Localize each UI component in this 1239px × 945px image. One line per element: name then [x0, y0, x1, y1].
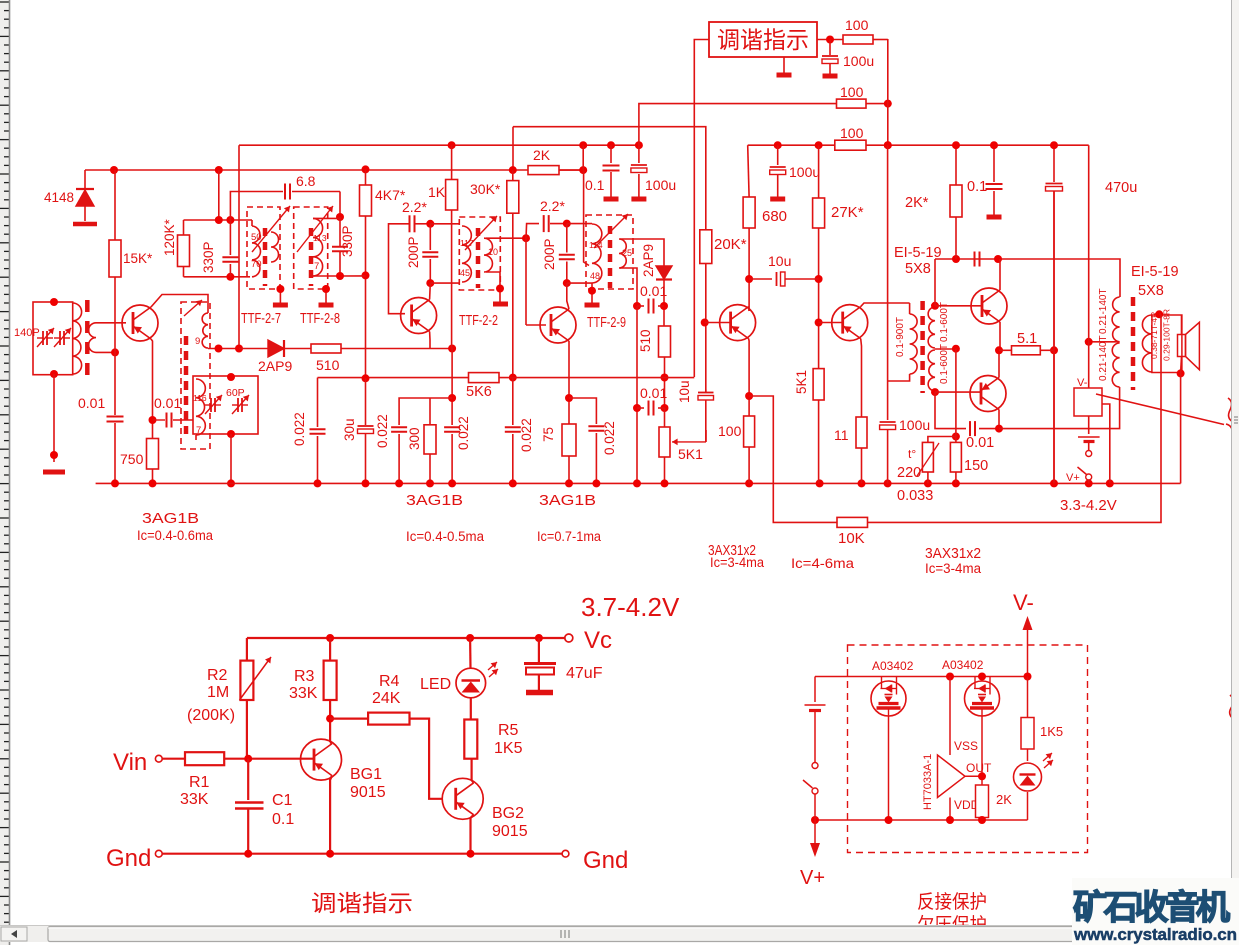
svg-text:2K: 2K — [996, 792, 1012, 807]
rail junction x664.5 — [661, 479, 669, 487]
TTF-2-9 core dashes — [608, 226, 613, 288]
node prot bottom x950 — [946, 816, 954, 824]
svg-text:t°: t° — [908, 447, 916, 461]
svg-text:100u: 100u — [843, 53, 874, 69]
resistor 5K6 — [469, 373, 500, 383]
MOSFET Q1 A03402 — [871, 681, 906, 716]
rail junction x861.5 — [858, 479, 866, 487]
node prot bottom x982 — [978, 816, 986, 824]
node y276 x230 — [226, 273, 234, 281]
TTF-2-8 trimmer arrow — [297, 206, 333, 252]
svg-text:5X8: 5X8 — [1138, 283, 1164, 299]
antenna coil primary L1 — [73, 303, 82, 374]
vertical scrollbar grip — [1234, 417, 1238, 423]
resistor 100 no1 — [843, 35, 873, 44]
wire audio1 collector — [748, 307, 751, 311]
node wire A 100u corner — [635, 141, 643, 149]
svg-text:33K: 33K — [289, 685, 318, 702]
vertical x887.8 — [887, 39, 889, 145]
capacitor 100u interstage — [887, 381, 889, 420]
Vc rail wire — [247, 637, 566, 639]
wire audio1 emitter — [748, 339, 751, 416]
diode 2AP9 detector — [656, 266, 672, 279]
wire BG1 base — [248, 758, 314, 760]
wire R5 to BG2 collector — [472, 759, 474, 783]
resistor 300 — [429, 398, 431, 425]
svg-text:R4: R4 — [379, 673, 400, 690]
node det out — [660, 302, 668, 310]
wire varcap box to rail — [230, 434, 232, 483]
diode 4148 — [76, 190, 94, 206]
wire y276 tank bottom — [184, 276, 251, 278]
svg-text:60P: 60P — [226, 387, 245, 399]
ground TTF-2-2 — [493, 302, 508, 307]
svg-text:15K*: 15K* — [123, 251, 153, 266]
svg-text:Vin: Vin — [113, 749, 147, 776]
node 0.01no2 left — [633, 404, 641, 412]
TTF-2-7 secondary coil — [271, 232, 279, 262]
rail junction x365.5 — [362, 479, 370, 487]
interstage secondary upper — [928, 307, 935, 348]
wire IF2 collector — [567, 283, 569, 309]
svg-text:9: 9 — [195, 336, 200, 347]
TTF-2-2 dashed box — [459, 217, 500, 290]
node emitter junction — [995, 346, 1003, 354]
resistor R2 variable — [246, 638, 248, 661]
wire x218 drop — [218, 170, 220, 220]
node output center tap — [1085, 338, 1093, 346]
ferrite core dashes — [85, 300, 90, 378]
node emitters 5.1 — [1050, 346, 1058, 354]
interstage primary coil — [909, 303, 911, 314]
wire 6.8 right drop — [339, 192, 341, 218]
svg-text:EI-5-19: EI-5-19 — [894, 245, 942, 261]
capacitor 0.01 base bypass — [114, 352, 116, 415]
svg-text:120K*: 120K* — [162, 218, 177, 256]
wire secondary bottom to node — [96, 351, 115, 353]
svg-text:10: 10 — [488, 247, 498, 257]
protection dashed box — [848, 645, 1088, 853]
node R3 top — [326, 634, 334, 642]
resistor 1K5 protection — [1027, 677, 1029, 718]
capacitor 200P no2 — [566, 224, 568, 253]
svg-text:0.022: 0.022 — [375, 414, 390, 448]
svg-text:BG1: BG1 — [350, 766, 382, 783]
svg-text:Vc: Vc — [584, 627, 612, 654]
svg-text:10u: 10u — [768, 253, 791, 269]
node C1 gnd — [244, 850, 252, 858]
node wire A 1K — [448, 141, 456, 149]
svg-text:EI-5-19: EI-5-19 — [1131, 264, 1179, 280]
svg-text:Ic=3-4ma: Ic=3-4ma — [925, 561, 981, 576]
svg-text:0.1: 0.1 — [272, 811, 294, 828]
svg-text:100u: 100u — [899, 417, 930, 433]
resistor 20K* — [705, 170, 707, 230]
wire thermistor branch — [928, 437, 956, 443]
wire 20K to base — [705, 264, 707, 393]
wire x1054 down — [1053, 191, 1055, 483]
svg-text:5K6: 5K6 — [466, 384, 492, 400]
resistor 30K* — [512, 170, 514, 181]
resistor R5 — [464, 720, 477, 759]
scrollbar grip — [561, 930, 569, 938]
capacitor 330P no2 — [332, 246, 348, 248]
svg-text:0.033: 0.033 — [897, 488, 933, 504]
osc core dashes — [184, 336, 189, 434]
capacitor 100u audio supply — [777, 145, 779, 165]
wire lower collector — [998, 410, 1000, 429]
svg-text:5X8: 5X8 — [905, 261, 931, 277]
node 2K* bottom — [952, 255, 960, 263]
rail junction x1109.8 — [1106, 479, 1114, 487]
wire detector diode down — [663, 280, 665, 327]
svg-text:2K*: 2K* — [905, 195, 929, 211]
node 27K top — [815, 141, 823, 149]
svg-text:0.01: 0.01 — [640, 283, 667, 299]
ground 100u wireA — [631, 197, 646, 202]
capacitor 30u electrolytic — [365, 378, 367, 425]
svg-text:0.1: 0.1 — [585, 177, 605, 193]
variable capacitor C-tune-b — [54, 337, 60, 339]
svg-text:100: 100 — [840, 125, 864, 141]
wire converter emitter down — [151, 339, 153, 483]
wire LED to bottom — [1027, 792, 1029, 820]
resistor 680 — [748, 145, 749, 197]
TTF-2-7 ground stub — [279, 285, 281, 303]
svg-text:9015: 9015 — [350, 784, 386, 801]
svg-text:反接保护: 反接保护 — [917, 891, 987, 913]
output transformer primary lower — [1112, 343, 1119, 387]
resistor 1K — [451, 145, 453, 179]
svg-text:VSS: VSS — [954, 739, 978, 753]
node osc out — [215, 345, 223, 353]
capacitor 0.01 no1 — [637, 305, 644, 307]
svg-text:C1: C1 — [272, 792, 293, 809]
svg-text:30K*: 30K* — [470, 181, 501, 197]
svg-text:680: 680 — [762, 208, 787, 225]
wire 680 to collector — [748, 228, 750, 311]
svg-text:140P: 140P — [14, 327, 40, 339]
svg-text:A03402: A03402 — [942, 658, 984, 672]
rail junction x1088.7 — [1085, 479, 1093, 487]
node 470u top — [1050, 141, 1058, 149]
variable capacitor C-tune-a 140P — [37, 337, 43, 339]
LED protection — [1014, 763, 1042, 791]
resistor 510 osc — [311, 344, 341, 353]
svg-text:3.3-4.2V: 3.3-4.2V — [1060, 497, 1117, 514]
node IF2 emitter y398 — [565, 394, 573, 402]
rail junction x152.5 — [149, 479, 157, 487]
svg-text:0.022: 0.022 — [292, 412, 307, 446]
resistor 4K7* — [365, 169, 367, 185]
svg-text:HT7033A-1: HT7033A-1 — [922, 754, 934, 810]
wire x637 down — [636, 306, 638, 483]
transistor driver 3AX31 — [832, 305, 868, 341]
svg-text:9015: 9015 — [492, 823, 528, 840]
osc feedback coil — [196, 379, 205, 435]
wire 1K to emitter node — [451, 210, 453, 349]
capacitor 0.022 no0 — [317, 378, 319, 427]
LED indicator — [456, 668, 486, 698]
tuning indicator callout box — [709, 22, 817, 57]
right edge strip — [1232, 0, 1239, 945]
node thermistor top — [952, 433, 960, 441]
svg-text:20K*: 20K* — [714, 236, 747, 253]
potentiometer 5K1 volume — [659, 427, 670, 457]
rail junction x637 — [633, 479, 641, 487]
wire sec top to upper base — [935, 305, 982, 307]
feedback wire to speaker top — [868, 315, 1162, 522]
svg-text:300: 300 — [407, 427, 422, 450]
wire OUT to node — [965, 775, 982, 777]
node 30u AGC — [362, 374, 370, 382]
wire C y=126.7 — [513, 127, 706, 170]
resistor 100 no2 — [837, 99, 867, 108]
svg-text:0.022: 0.022 — [456, 416, 471, 450]
node y220 x230 — [226, 216, 234, 224]
wire TTF29 sec bottom down — [620, 268, 637, 306]
svg-text:TTF-2-9: TTF-2-9 — [587, 315, 626, 331]
svg-text:330P: 330P — [201, 241, 216, 273]
scrollbar thumb — [48, 927, 1083, 942]
ground 0.1 output — [987, 215, 1002, 220]
transistor IF2 3AG1B — [540, 307, 576, 343]
wire B horizontal — [85, 169, 583, 171]
svg-text:V+: V+ — [1066, 472, 1080, 484]
node wire A 0.1cap — [607, 141, 615, 149]
resistor R4 — [330, 717, 368, 719]
wire upper emitter — [999, 322, 1001, 350]
resistor 5.1 — [999, 349, 1012, 351]
TTF-2-8 dashed box — [294, 207, 328, 289]
node prot top x950 — [946, 673, 954, 681]
rail junction x512.8 — [509, 479, 517, 487]
svg-text:330P: 330P — [340, 225, 355, 257]
svg-text:R2: R2 — [207, 667, 228, 684]
output transformer primary upper — [1112, 297, 1120, 342]
svg-text:Ic=3-4ma: Ic=3-4ma — [710, 555, 764, 570]
terminal Vin — [155, 755, 162, 762]
Gnd rail indicator — [162, 853, 562, 855]
node prot top x982 — [978, 673, 986, 681]
svg-text:LED: LED — [420, 676, 451, 693]
node y398 x452 — [448, 394, 456, 402]
wire converter collector to osc coil — [151, 295, 208, 314]
svg-text:47uF: 47uF — [566, 665, 603, 682]
node TTF-2-8 gnd — [322, 285, 330, 293]
svg-text:Gnd: Gnd — [106, 845, 151, 872]
diode 2AP9 osc — [268, 340, 284, 357]
capacitor 200P no1 — [429, 224, 431, 250]
feedback wire from audio1 emitter — [749, 396, 837, 522]
capacitor 0.1 wireA — [610, 145, 612, 163]
battery output — [1078, 436, 1100, 438]
AGC wire — [318, 377, 695, 379]
svg-text:R3: R3 — [294, 668, 315, 685]
node 200Pno2 bottom — [563, 279, 571, 287]
svg-text:150: 150 — [964, 458, 988, 474]
output secondary coil — [1142, 315, 1152, 372]
capacitor 10u to pot — [705, 390, 707, 393]
TTF-2-9 trimmer arrow — [594, 214, 628, 248]
thermistor 220 t — [922, 442, 933, 472]
rail junction x927.9 — [924, 479, 932, 487]
resistor 100 no3 — [835, 140, 866, 150]
node emitter-0.01 junction — [149, 416, 157, 424]
wire driver emitter to 11 — [860, 339, 863, 417]
TTF-2-8 core dashes — [309, 228, 314, 286]
MOSFET Q2 A03402 — [965, 681, 1000, 716]
capacitor 330P no1 — [229, 220, 231, 255]
battery protection — [814, 677, 816, 703]
wire osc pin9 out — [208, 348, 239, 350]
wire A y=145 left segment — [239, 144, 639, 146]
svg-text:TTF-2-7: TTF-2-7 — [241, 311, 281, 327]
node audio1 base — [701, 319, 709, 327]
wire 200Pno2 to coil48 — [567, 282, 592, 284]
capacitor 0.022 no3 — [512, 378, 514, 425]
ground rail — [96, 482, 1181, 484]
svg-text:OUT: OUT — [966, 761, 992, 775]
svg-text:0.01: 0.01 — [154, 395, 181, 411]
capacitor 10u interstage — [749, 278, 772, 280]
node varcap rail — [227, 479, 235, 487]
regulator HT7033A-1 triangle — [938, 755, 966, 798]
capacitor 2.2 no2 — [526, 224, 539, 239]
ground 0.1 wireA — [604, 197, 619, 202]
node 510 right — [448, 345, 456, 353]
svg-text:TTF-2-2: TTF-2-2 — [459, 313, 498, 329]
svg-text:117: 117 — [460, 238, 474, 248]
capacitor 0.01 osc coupling — [153, 419, 166, 421]
rail junction x749.1 — [745, 479, 753, 487]
svg-text:TTF-2-8: TTF-2-8 — [300, 311, 340, 327]
rail junction x819.6 — [816, 479, 824, 487]
wire box right to resistor — [817, 39, 843, 41]
svg-text:2.2*: 2.2* — [540, 198, 565, 214]
interstage core dashes — [920, 301, 925, 393]
svg-text:100: 100 — [718, 423, 742, 439]
rail junction x452.1 — [448, 479, 456, 487]
wire switch to rail — [1088, 480, 1090, 483]
node top of tuning gang — [50, 298, 58, 306]
svg-text:0.1-900T: 0.1-900T — [895, 317, 906, 357]
wire x935 from y259 to sec top — [934, 259, 936, 306]
wire x887.6 down — [887, 145, 889, 381]
node TTF22 sec out — [522, 234, 530, 242]
output core dashes — [1131, 297, 1136, 390]
wire y398 left — [399, 398, 452, 425]
svg-text:10K: 10K — [838, 530, 865, 547]
node base junction — [244, 755, 252, 763]
ground 100u audio — [770, 197, 785, 202]
resistor 510 detector — [659, 326, 671, 357]
node prot bottom x815 — [811, 816, 819, 824]
resistor R3 — [329, 638, 331, 661]
node prot top x1027 — [1024, 673, 1032, 681]
ground tuning gang — [43, 470, 65, 475]
node OUT — [978, 772, 986, 780]
wire lower emitter — [998, 350, 1000, 377]
svg-text:27K*: 27K* — [831, 204, 864, 221]
wire box left to x694 — [694, 40, 709, 378]
partial glyph right edge lower — [1230, 695, 1235, 720]
V- block — [1074, 388, 1102, 416]
variable capacitor osc b — [232, 404, 238, 406]
wire BG1 emitter — [330, 776, 332, 854]
V+ arrow protection — [814, 820, 816, 845]
wire base feed x526 — [525, 238, 527, 325]
ground TTF-2-8 — [319, 303, 334, 308]
ground TTF-2-9 — [585, 303, 600, 308]
protection bottom wire — [815, 819, 1028, 821]
terminal bar below 4148 — [73, 222, 97, 227]
transistor output upper 3AX31 — [971, 288, 1007, 324]
wire A corner drop x239 — [238, 145, 240, 348]
svg-text:220: 220 — [897, 465, 921, 481]
node 330P2 bottom — [336, 272, 344, 280]
node 239-348 — [235, 345, 243, 353]
svg-text:Ic=4-6ma: Ic=4-6ma — [791, 556, 855, 571]
node TTF29 gnd — [588, 287, 596, 295]
TTF-2-7 trimmer arrow — [252, 206, 290, 252]
node 4K7-TTF28 link — [362, 271, 370, 279]
resistor 120K* — [183, 220, 185, 235]
svg-text:www.crystalradio.cn: www.crystalradio.cn — [1073, 925, 1237, 944]
wire TTF22 secondary bottom gnd — [486, 272, 500, 302]
scrollbar left button — [1, 927, 27, 941]
watermark background — [1072, 878, 1239, 945]
svg-text:24K: 24K — [372, 690, 401, 707]
svg-text:114: 114 — [589, 240, 603, 250]
svg-text:7: 7 — [314, 261, 319, 272]
rail junction x317.5 — [314, 479, 322, 487]
switch output — [1086, 451, 1092, 457]
capacitor 100u wireA — [638, 145, 640, 163]
transistor output lower 3AX31 — [970, 376, 1006, 412]
svg-text:510: 510 — [316, 357, 340, 373]
svg-text:75: 75 — [541, 427, 556, 442]
wire battery to switch — [1088, 442, 1090, 451]
wire BG1 collector — [330, 742, 332, 744]
svg-text:200P: 200P — [542, 238, 557, 270]
node wire B x218 — [215, 166, 223, 174]
TTF-2-7 core dashes — [263, 228, 268, 286]
node varcap box top — [227, 373, 235, 381]
svg-text:30u: 30u — [342, 418, 357, 441]
node 4K7 top — [362, 165, 370, 173]
svg-text:V-: V- — [1077, 377, 1088, 389]
wire IF2 emitter — [568, 341, 570, 483]
node 10u left — [745, 275, 753, 283]
svg-text:Ic=0.4-0.6ma: Ic=0.4-0.6ma — [137, 528, 213, 543]
wire emitter bypass right — [569, 398, 596, 424]
node secondary bottom — [931, 388, 939, 396]
node TTF22 gnd — [496, 285, 504, 293]
resistor 75 — [562, 424, 576, 456]
node 200P bottom — [426, 279, 434, 287]
wire sec bottom to lower base — [935, 391, 982, 393]
rail junction x399.1 — [395, 479, 403, 487]
node 30K AGC — [509, 374, 517, 382]
wire TTF29 sec top to diode — [620, 239, 664, 266]
wire base into audio1 — [705, 322, 731, 324]
node 2K* top — [952, 141, 960, 149]
wire center tap down — [955, 349, 957, 442]
wire driver collector to interstage — [861, 303, 910, 307]
terminal Vc — [565, 634, 573, 642]
node 330P2 top — [336, 213, 344, 221]
